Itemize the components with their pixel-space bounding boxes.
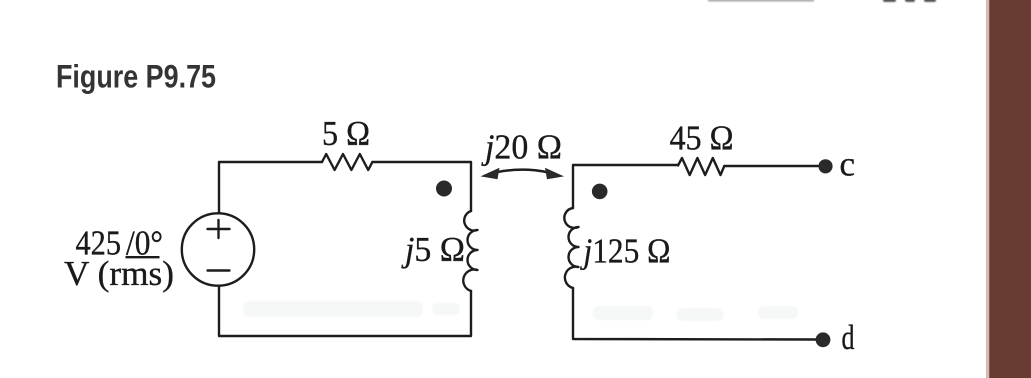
faint show-through ghosts — [243, 301, 798, 321]
wire: top segment resistor to terminal c — [724, 165, 818, 167]
mutual coupling arrow j20Ω — [481, 168, 565, 179]
inductor j5Ω coil — [463, 211, 477, 291]
svg-text:d: d — [842, 318, 855, 357]
resistor 5Ω zigzag — [322, 154, 372, 170]
terminal d dot — [816, 332, 831, 347]
cut-off page number 888 at top — [883, 0, 936, 2]
+ sign of source — [208, 220, 230, 238]
book edge maroon strip — [986, 0, 1031, 378]
wire: top segment from coil to resistor — [573, 165, 678, 208]
voltage source circle — [182, 213, 254, 285]
terminal c dot — [818, 159, 832, 173]
svg-text:c: c — [840, 144, 856, 183]
inductor j125Ω coil — [564, 208, 578, 288]
cut-off header text at top — [708, 0, 814, 2]
svg-text:V (rms): V (rms) — [64, 254, 174, 293]
svg-text:45 Ω: 45 Ω — [670, 118, 734, 157]
dot of secondary coil — [592, 184, 608, 200]
svg-text:Figure P9.75: Figure P9.75 — [56, 59, 216, 95]
svg-text:5 Ω: 5 Ω — [322, 114, 370, 153]
wire: top-right segment to coil — [372, 162, 471, 211]
wire: right-bottom segment — [219, 287, 471, 337]
wire: left-bottom segment to terminal d — [573, 288, 816, 340]
- sign of source — [208, 269, 230, 271]
svg-text:j5 Ω: j5 Ω — [401, 230, 465, 269]
svg-text:j125 Ω: j125 Ω — [580, 232, 671, 271]
angle underline — [126, 256, 160, 258]
resistor 45Ω zigzag — [678, 158, 724, 175]
wire: left-top segment source to resistor — [219, 162, 322, 213]
svg-text:j20 Ω: j20 Ω — [481, 127, 562, 166]
dot of primary coil — [436, 181, 452, 197]
